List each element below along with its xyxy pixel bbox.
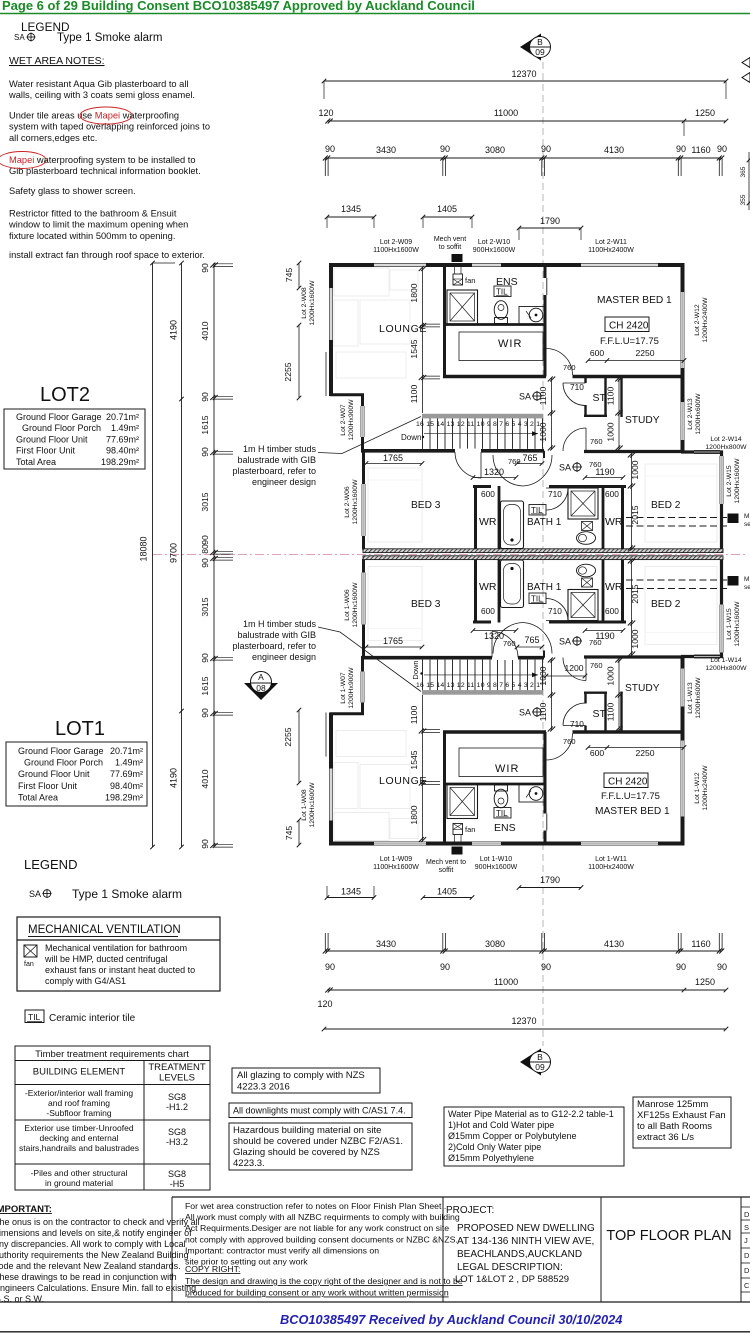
svg-text:fan: fan (465, 825, 475, 834)
svg-text:Ground Floor Unit: Ground Floor Unit (16, 434, 88, 444)
svg-text:08: 08 (256, 683, 266, 693)
svg-text:11000: 11000 (494, 108, 518, 118)
svg-text:BEACHLANDS,AUCKLAND: BEACHLANDS,AUCKLAND (457, 1249, 582, 1260)
dim 90/3430/90/3080/90/4130/90/1160/90 top (325, 157, 722, 159)
svg-text:to all Bath Rooms: to all Bath Rooms (637, 1121, 712, 1132)
svg-text:Important: contractor must ver: Important: contractor must verify all di… (185, 1245, 379, 1255)
svg-text:1100: 1100 (538, 703, 548, 722)
svg-text:900Hx1600W: 900Hx1600W (473, 247, 516, 254)
svg-text:Lot 1-W09: Lot 1-W09 (380, 856, 412, 863)
dim 600/2250 bottom (588, 747, 684, 749)
svg-text:LOT 1&LOT 2 , DP 588529: LOT 1&LOT 2 , DP 588529 (455, 1274, 569, 1285)
dim 1200 bottom hall (546, 675, 585, 677)
svg-text:-H3.2: -H3.2 (166, 1137, 188, 1147)
st door arc (563, 382, 586, 384)
svg-text:Lot 1-W06: Lot 1-W06 (344, 589, 351, 621)
svg-text:09: 09 (535, 1062, 545, 1072)
svg-text:-H5: -H5 (170, 1179, 185, 1189)
svg-text:Mech vent: Mech vent (434, 236, 466, 243)
svg-text:1200Hx800W: 1200Hx800W (705, 444, 747, 451)
dim 1320/1190 bottom (473, 630, 516, 632)
svg-text:SA: SA (559, 637, 571, 647)
section marker B-09 top (520, 34, 541, 61)
svg-text:16 15 14 13 12 11 10 9 8 7 6 5: 16 15 14 13 12 11 10 9 8 7 6 5 4 3 2 1 (416, 682, 540, 689)
svg-text:Gib plasterboard technical inf: Gib plasterboard technical information b… (9, 166, 201, 176)
core right wall (544, 265, 547, 278)
svg-text:1000: 1000 (606, 666, 616, 685)
downlights note box (229, 1103, 412, 1118)
svg-text:Down: Down (411, 660, 420, 679)
hall dims bottom (551, 659, 553, 730)
svg-text:Engineers Calculations. Ensure: Engineers Calculations. Ensure Min. fall… (0, 1283, 196, 1293)
svg-text:90: 90 (717, 144, 727, 154)
svg-text:600: 600 (481, 606, 495, 616)
svg-text:Mech vent to: Mech vent to (426, 859, 466, 866)
right edge cut arrows (742, 58, 750, 68)
svg-text:1765: 1765 (383, 636, 403, 646)
svg-text:12370: 12370 (511, 69, 536, 79)
svg-text:90: 90 (541, 144, 551, 154)
section marker A-08 left (244, 683, 278, 700)
svg-text:ST: ST (593, 392, 607, 404)
svg-text:install extract fan through ro: install extract fan through roof space t… (9, 250, 205, 260)
svg-text:M: M (744, 513, 749, 520)
svg-text:The design and drawing is the: The design and drawing is the copy right… (185, 1276, 463, 1286)
svg-text:AT 134-136 NINTH VIEW AVE,: AT 134-136 NINTH VIEW AVE, (457, 1236, 594, 1247)
dim 90/3430... bottom (325, 950, 722, 952)
svg-text:90: 90 (200, 708, 210, 718)
svg-text:710: 710 (570, 382, 584, 392)
svg-text:LOT2: LOT2 (40, 384, 90, 406)
svg-text:Type 1 Smoke alarm: Type 1 Smoke alarm (57, 32, 162, 44)
svg-text:Safety glass to shower screen.: Safety glass to shower screen. (9, 186, 136, 196)
svg-text:710: 710 (570, 719, 584, 729)
svg-text:1000: 1000 (630, 460, 640, 479)
svg-text:-Piles and other structural: -Piles and other structural (31, 1168, 128, 1178)
svg-text:Lot 2-W12: Lot 2-W12 (694, 304, 701, 336)
svg-text:77.69m²: 77.69m² (106, 434, 139, 444)
dim 1765/765 top (366, 463, 422, 465)
glazing note box (232, 1068, 380, 1093)
svg-text:G.S. or S.W.: G.S. or S.W. (0, 1294, 44, 1304)
svg-text:BATH 1: BATH 1 (527, 517, 562, 528)
svg-text:soffit: soffit (439, 867, 454, 874)
svg-text:745: 745 (284, 268, 294, 283)
svg-text:stairs,handrails and balustrad: stairs,handrails and balustrades (19, 1143, 139, 1153)
svg-text:710: 710 (548, 606, 562, 616)
lounge dims bottom (422, 695, 424, 841)
svg-text:Lot 2-W09: Lot 2-W09 (380, 239, 412, 246)
exterior top wall (329, 263, 374, 267)
svg-text:BED 3: BED 3 (411, 599, 441, 610)
mechanical ventilation box (17, 917, 220, 991)
svg-text:ST: ST (593, 708, 607, 720)
core left wall (443, 265, 446, 376)
svg-text:90: 90 (440, 962, 450, 972)
svg-text:1405: 1405 (437, 204, 457, 214)
svg-text:Lot 2-W07: Lot 2-W07 (340, 404, 347, 436)
svg-text:745: 745 (284, 826, 294, 841)
svg-text:decking and enternal: decking and enternal (40, 1133, 119, 1143)
svg-text:760: 760 (508, 457, 521, 466)
svg-text:WR: WR (479, 581, 497, 593)
svg-text:XF125s Exhaust Fan: XF125s Exhaust Fan (637, 1110, 726, 1121)
svg-text:1000: 1000 (538, 422, 548, 441)
svg-text:These drawings to be read in c: These drawings to be read in conjunction… (0, 1272, 177, 1282)
faint lounge furniture (334, 268, 389, 296)
timber treatment chart (15, 1046, 210, 1190)
bed2 dashes top (626, 517, 727, 519)
svg-text:4130: 4130 (604, 145, 624, 155)
svg-text:1200Hx1600W: 1200Hx1600W (734, 458, 741, 504)
svg-text:90: 90 (200, 535, 210, 545)
svg-text:B: B (537, 37, 543, 47)
svg-text:760: 760 (589, 638, 602, 647)
svg-text:98.40m²: 98.40m² (110, 781, 143, 791)
svg-text:1100: 1100 (409, 385, 419, 404)
svg-text:1200Hx1600W: 1200Hx1600W (352, 582, 359, 628)
lounge dims top (422, 267, 424, 413)
svg-text:Mechanical ventilation for ba: Mechanical ventilation for bathroom (45, 943, 187, 953)
svg-text:1200Hx1600W: 1200Hx1600W (352, 479, 359, 525)
svg-text:1200Hx2400W: 1200Hx2400W (702, 765, 709, 811)
svg-text:Lot 2-W10: Lot 2-W10 (478, 239, 510, 246)
faint bed3 furniture (368, 468, 422, 542)
svg-text:Ø15mm Polyethylene: Ø15mm Polyethylene (448, 1153, 534, 1163)
svg-text:should be covered under NZBC F: should be covered under NZBC F2/AS1. (233, 1136, 403, 1147)
svg-text:all corners,edges etc.: all corners,edges etc. (9, 133, 97, 143)
hazardous note box (229, 1123, 412, 1170)
svg-text:not comply with approved build: not comply with approved building consen… (185, 1234, 458, 1244)
svg-text:1345: 1345 (341, 204, 361, 214)
svg-text:Ground Floor Porch: Ground Floor Porch (24, 758, 103, 768)
hall band bottom wall (584, 450, 684, 453)
svg-text:355: 355 (740, 194, 747, 205)
svg-text:3430: 3430 (376, 939, 396, 949)
svg-text:3080: 3080 (485, 939, 505, 949)
ens fan box (453, 274, 463, 285)
svg-text:balustrade with GIB: balustrade with GIB (237, 630, 316, 640)
svg-text:Ø15mm Copper or Polybutylene: Ø15mm Copper or Polybutylene (448, 1131, 577, 1141)
svg-text:1320: 1320 (484, 467, 504, 477)
svg-text:2015: 2015 (630, 584, 640, 603)
svg-text:1200Hx1600W: 1200Hx1600W (309, 782, 316, 828)
svg-text:1)Hot and Cold Water pipe: 1)Hot and Cold Water pipe (448, 1120, 554, 1130)
bed2 dashes bottom (626, 579, 727, 581)
svg-text:produced for building consent: produced for building consent or any wor… (185, 1288, 449, 1298)
svg-text:11000: 11000 (494, 977, 518, 987)
svg-text:IMPORTANT:: IMPORTANT: (0, 1204, 52, 1215)
bed2 side dims top (631, 454, 633, 549)
svg-text:All glazing to comply with NZS: All glazing to comply with NZS (237, 1070, 365, 1081)
svg-text:1100: 1100 (409, 706, 419, 725)
dim 745/2255 bottom (298, 820, 300, 845)
svg-text:walls, ceiling with 3 coats se: walls, ceiling with 3 coats semi gloss e… (8, 90, 195, 100)
faint bed2 furniture (645, 464, 717, 542)
svg-text:Water resistant Aqua Gib plast: Water resistant Aqua Gib plasterboard to… (9, 79, 189, 89)
svg-text:WIR: WIR (495, 763, 519, 775)
svg-text:Lot 2-W15: Lot 2-W15 (726, 465, 733, 497)
svg-text:plasterboard, refer to: plasterboard, refer to (232, 641, 316, 651)
svg-text:1345: 1345 (341, 887, 361, 897)
svg-text:2250: 2250 (635, 748, 654, 758)
dim 1790 top (519, 227, 581, 229)
master door arc (545, 349, 547, 376)
svg-text:-Subfloor framing: -Subfloor framing (46, 1108, 111, 1118)
svg-text:90: 90 (440, 144, 450, 154)
svg-text:90: 90 (676, 144, 686, 154)
svg-text:600: 600 (481, 489, 495, 499)
svg-text:4010: 4010 (200, 769, 210, 788)
svg-text:any discrepancies. All work to: any discrepancies. All work to comply wi… (0, 1239, 186, 1249)
svg-text:se: se (744, 584, 750, 591)
bath door arc (546, 487, 568, 489)
svg-text:Lot 1-W11: Lot 1-W11 (595, 856, 627, 863)
svg-text:3080: 3080 (485, 145, 505, 155)
svg-text:engineer design: engineer design (252, 652, 316, 662)
svg-text:MASTER BED 1: MASTER BED 1 (597, 295, 672, 306)
svg-text:BCO10385497 Received by Auckla: BCO10385497 Received by Auckland Council… (280, 1312, 622, 1327)
svg-text:1000: 1000 (538, 666, 548, 685)
party wall centreline dashed pink (153, 554, 746, 556)
svg-text:1800: 1800 (409, 805, 419, 824)
svg-text:code and the relevant New Zeal: code and the relevant New Zealand standa… (0, 1261, 181, 1271)
bath corridor door arcs (493, 455, 523, 486)
TIL ceramic tile note (25, 1010, 44, 1023)
svg-text:J: J (744, 1236, 748, 1245)
svg-text:1200Hx800W: 1200Hx800W (705, 665, 747, 672)
svg-text:Lot 1-W13: Lot 1-W13 (687, 682, 694, 714)
porch step wall (330, 393, 364, 396)
svg-text:1100Hx2400W: 1100Hx2400W (588, 864, 634, 871)
svg-text:1615: 1615 (200, 415, 210, 434)
svg-text:D: D (744, 1210, 750, 1219)
svg-text:Ground Floor Unit: Ground Floor Unit (18, 769, 90, 779)
svg-text:PROJECT:: PROJECT: (446, 1205, 494, 1216)
svg-text:to soffit: to soffit (439, 244, 461, 251)
svg-text:LEVELS: LEVELS (159, 1073, 195, 1084)
svg-text:18080: 18080 (139, 536, 149, 561)
svg-text:TIL: TIL (28, 1012, 41, 1022)
svg-text:90: 90 (200, 263, 210, 273)
small cab bath1 (582, 522, 593, 531)
svg-text:WR: WR (479, 516, 497, 528)
svg-text:600: 600 (590, 348, 605, 358)
svg-text:90: 90 (200, 653, 210, 663)
svg-text:760: 760 (590, 437, 603, 446)
svg-text:1100: 1100 (606, 387, 616, 406)
svg-text:fixture located within 500mm t: fixture located within 500mm to opening. (9, 231, 175, 241)
svg-text:comply with G4/AS1: comply with G4/AS1 (45, 976, 126, 986)
title block (172, 1196, 750, 1198)
dim 1790 bottom (519, 887, 581, 889)
svg-text:09: 09 (535, 47, 545, 57)
svg-text:CH 2420: CH 2420 (608, 777, 648, 788)
svg-text:1.49m²: 1.49m² (111, 423, 139, 433)
svg-text:1200Hx600W: 1200Hx600W (695, 393, 702, 435)
svg-text:120: 120 (317, 999, 332, 1009)
svg-text:3015: 3015 (200, 597, 210, 616)
stair treads (422, 418, 424, 449)
left exterior wall (329, 263, 333, 288)
ens shower (447, 290, 478, 324)
svg-text:1100Hx1600W: 1100Hx1600W (373, 247, 419, 254)
svg-text:All work must comply with all: All work must comply with all NZBC requi… (185, 1212, 460, 1222)
svg-text:9700: 9700 (169, 543, 179, 563)
svg-text:2015: 2015 (630, 505, 640, 524)
svg-text:90: 90 (325, 144, 335, 154)
bath tub (501, 501, 524, 549)
svg-text:20.71m²: 20.71m² (110, 746, 143, 756)
svg-text:4130: 4130 (604, 939, 624, 949)
svg-text:3015: 3015 (200, 492, 210, 511)
svg-text:Restrictor fitted to the bathr: Restrictor fitted to the bathroom & Ensu… (9, 209, 177, 219)
svg-text:The onus is on the contractor: The onus is on the contractor to check a… (0, 1217, 200, 1227)
svg-text:system with taped overlapping: system with taped overlapping reinforced… (9, 122, 210, 132)
svg-text:1160: 1160 (691, 145, 710, 155)
svg-text:M: M (744, 576, 749, 583)
stair bottom wall (361, 449, 544, 453)
svg-text:MECHANICAL VENTILATION: MECHANICAL VENTILATION (28, 924, 181, 936)
dim 11000/120/1250 top (327, 120, 726, 122)
svg-text:Ground Floor Porch: Ground Floor Porch (22, 423, 101, 433)
svg-text:-H1.2: -H1.2 (166, 1102, 188, 1112)
svg-text:760: 760 (589, 460, 602, 469)
bed3 left wall (362, 450, 365, 484)
svg-text:authority requirements the New: authority requirements the New Zealand B… (0, 1250, 189, 1260)
svg-text:1790: 1790 (540, 875, 560, 885)
svg-text:1800: 1800 (409, 283, 419, 302)
svg-text:SA: SA (519, 708, 531, 718)
svg-text:All downlights must comply wit: All downlights must comply with C/AS1 7.… (233, 1106, 406, 1116)
svg-text:2255: 2255 (283, 362, 293, 381)
svg-text:90: 90 (676, 962, 686, 972)
svg-text:Lot 2-W13: Lot 2-W13 (687, 398, 694, 430)
svg-text:760: 760 (563, 737, 576, 746)
svg-text:window to limit the maximum op: window to limit the maximum opening when (8, 220, 188, 230)
lot2 bed3 door (455, 449, 481, 453)
svg-text:1250: 1250 (695, 977, 715, 987)
svg-text:-Exterior/interior wall framin: -Exterior/interior wall framing (25, 1088, 133, 1098)
wir/master bottom wall (443, 375, 546, 378)
svg-text:Lot 1-W10: Lot 1-W10 (480, 856, 512, 863)
svg-text:plasterboard, refer to: plasterboard, refer to (232, 466, 316, 476)
svg-text:16 15 14 13 12 11 10 9 8 7 6 5: 16 15 14 13 12 11 10 9 8 7 6 5 4 3 2 1 (416, 421, 540, 428)
svg-text:exhaust fans or instant heat d: exhaust fans or instant heat ducted to (45, 965, 195, 975)
svg-text:SA: SA (29, 889, 41, 899)
svg-text:SG8: SG8 (168, 1127, 186, 1137)
svg-text:A: A (258, 672, 264, 682)
lot1 bed3 door (492, 655, 518, 660)
svg-text:80: 80 (200, 544, 210, 554)
svg-text:90: 90 (717, 962, 727, 972)
svg-text:SA: SA (519, 392, 531, 402)
svg-text:90: 90 (200, 392, 210, 402)
svg-text:Lot 2-W06: Lot 2-W06 (344, 486, 351, 518)
dim 11000/1250 bottom (327, 989, 726, 991)
svg-text:1.49m²: 1.49m² (115, 758, 143, 768)
right exterior wall (681, 263, 685, 292)
wir closet line (459, 332, 543, 361)
svg-text:Timber treatment requirements: Timber treatment requirements chart (35, 1049, 189, 1060)
svg-text:2)Cold Only Water pipe: 2)Cold Only Water pipe (448, 1142, 541, 1152)
svg-text:Lot 1-W07: Lot 1-W07 (340, 672, 347, 704)
svg-text:2255: 2255 (283, 727, 293, 746)
svg-text:198.29m²: 198.29m² (101, 457, 139, 467)
dim 1345 bottom (327, 897, 374, 899)
svg-text:BED 3: BED 3 (411, 500, 441, 511)
svg-text:1545: 1545 (409, 750, 419, 769)
svg-text:1320: 1320 (484, 631, 504, 641)
svg-text:600: 600 (590, 748, 605, 758)
mech vent soffit square (452, 254, 463, 262)
svg-text:760: 760 (503, 639, 516, 648)
svg-text:TOP FLOOR PLAN: TOP FLOOR PLAN (606, 1228, 731, 1244)
svg-text:1545: 1545 (409, 339, 419, 358)
svg-text:77.69m²: 77.69m² (110, 769, 143, 779)
dim 12370 bottom (324, 1028, 726, 1030)
svg-text:will be HMP, ducted centrifuga: will be HMP, ducted centrifugal (44, 954, 167, 964)
svg-text:1160: 1160 (691, 939, 710, 949)
svg-text:extract 36 L/s: extract 36 L/s (637, 1132, 694, 1143)
svg-text:120: 120 (318, 108, 333, 118)
dim 1345 top (327, 216, 374, 218)
dim 9700/4190 left (181, 263, 183, 847)
svg-text:in ground material: in ground material (45, 1178, 113, 1188)
svg-text:LEGAL DESCRIPTION:: LEGAL DESCRIPTION: (457, 1262, 563, 1273)
svg-text:1200Hx900W: 1200Hx900W (348, 399, 355, 441)
svg-text:765: 765 (522, 453, 537, 463)
svg-text:balustrade with GIB: balustrade with GIB (237, 455, 316, 465)
grid line B dashed (542, 62, 544, 1046)
svg-text:Ceramic interior tile: Ceramic interior tile (49, 1013, 136, 1024)
left wall lower (361, 394, 364, 406)
svg-text:F.F.L.U=17.75: F.F.L.U=17.75 (601, 791, 660, 802)
dim 1405 top (423, 216, 472, 218)
svg-text:Glazing should be covered by N: Glazing should be covered by NZS (233, 1147, 380, 1158)
svg-text:1100Hx1600W: 1100Hx1600W (373, 864, 419, 871)
svg-text:1100Hx2400W: 1100Hx2400W (588, 247, 634, 254)
svg-text:Lot 1-W14: Lot 1-W14 (710, 657, 742, 664)
svg-text:Ground Floor Garage: Ground Floor Garage (18, 746, 104, 756)
svg-text:se: se (744, 521, 750, 528)
svg-text:ENS: ENS (494, 822, 516, 834)
svg-text:1100: 1100 (606, 703, 616, 722)
svg-text:LOUNGE: LOUNGE (379, 323, 427, 335)
svg-text:Type 1 Smoke alarm: Type 1 Smoke alarm (72, 887, 182, 901)
svg-text:BUILDING ELEMENT: BUILDING ELEMENT (33, 1067, 126, 1078)
svg-text:1m H timber studs: 1m H timber studs (243, 444, 317, 454)
svg-text:Mapei waterproofing system to: Mapei waterproofing system to be install… (9, 155, 196, 165)
svg-text:Lot 2-W08: Lot 2-W08 (301, 287, 308, 319)
svg-text:S: S (744, 1223, 749, 1232)
shower bath1 (568, 488, 598, 519)
study door arc (585, 428, 587, 451)
CH2420 / FFLU labels (605, 317, 649, 332)
bath band walls vertical (474, 486, 477, 550)
stair rail (422, 414, 543, 419)
ens toilet (494, 301, 508, 320)
svg-text:198.29m²: 198.29m² (105, 792, 143, 802)
toilet bath1 (577, 532, 596, 545)
svg-text:365: 365 (740, 166, 747, 177)
svg-text:For wet area construction refe: For wet area construction refer to notes… (185, 1201, 446, 1211)
svg-text:1765: 1765 (383, 453, 403, 463)
manrose note box (633, 1097, 731, 1148)
svg-text:Lot 1-W12: Lot 1-W12 (694, 772, 701, 804)
svg-text:C: C (744, 1281, 750, 1290)
hall dims top (551, 378, 553, 449)
